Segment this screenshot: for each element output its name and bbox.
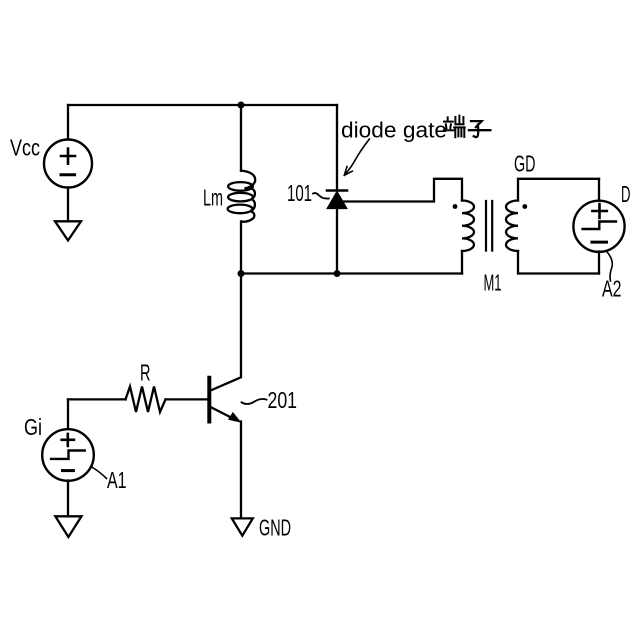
plus sign bbox=[61, 149, 75, 164]
plus sign bbox=[592, 204, 606, 218]
minus sign bbox=[63, 469, 74, 472]
node junction top (Lm tap) bbox=[238, 102, 245, 109]
wire primary bottom lead bbox=[461, 251, 463, 274]
wire resistor to base bbox=[166, 398, 208, 400]
wire Gi top lead bbox=[67, 399, 69, 429]
inductor Lm bbox=[228, 171, 256, 222]
leader squiggle 101 bbox=[313, 193, 329, 199]
svg-text:diode gate: diode gate bbox=[341, 118, 447, 143]
node junction mid-left bbox=[238, 270, 245, 277]
minus sign bbox=[61, 173, 75, 176]
base bar bbox=[207, 378, 211, 422]
wire emitter down bbox=[240, 422, 242, 517]
plus sign bbox=[62, 434, 74, 446]
svg-text:R: R bbox=[140, 360, 151, 386]
collector lead bbox=[211, 274, 242, 391]
voltage source Vcc bbox=[44, 105, 92, 221]
svg-text:M1: M1 bbox=[484, 270, 502, 296]
kanji 端 bbox=[444, 116, 465, 138]
source circle D bbox=[573, 201, 624, 252]
svg-text:GND: GND bbox=[259, 515, 291, 541]
leader squiggle 201 bbox=[242, 399, 267, 404]
wire Gi bottom lead bbox=[67, 481, 69, 517]
emitter arrowhead bbox=[229, 413, 241, 422]
svg-text:Vcc: Vcc bbox=[10, 135, 40, 161]
leader line A1 bbox=[93, 468, 107, 479]
primary winding bbox=[462, 201, 474, 251]
polarity dot primary bbox=[453, 204, 458, 209]
ground GND bbox=[232, 518, 253, 535]
voltage source Gi bbox=[42, 399, 94, 516]
svg-text:D: D bbox=[621, 181, 631, 207]
wire diode top lead bbox=[336, 105, 338, 191]
wire secondary bottom lead bbox=[518, 251, 599, 274]
emitter lead bbox=[211, 407, 236, 420]
kanji 子 bbox=[469, 121, 490, 137]
diode 101 bbox=[327, 191, 347, 274]
wire Gi to resistor bbox=[68, 398, 126, 400]
minus sign bbox=[592, 241, 607, 244]
resistor R bbox=[126, 387, 166, 413]
wire D source top lead bbox=[598, 179, 600, 202]
wire D source bottom lead bbox=[598, 252, 600, 274]
wire Lm bottom lead bbox=[240, 222, 242, 274]
ground below Vcc bbox=[55, 221, 81, 240]
polarity dot secondary bbox=[522, 204, 527, 209]
svg-text:Lm: Lm bbox=[203, 185, 223, 211]
step waveform bbox=[51, 451, 85, 459]
source circle Gi bbox=[42, 429, 94, 481]
wire diode to transformer primary bbox=[340, 179, 462, 202]
voltage source D bbox=[573, 179, 624, 274]
wire Lm top lead bbox=[240, 105, 242, 171]
source circle Vcc bbox=[44, 140, 92, 188]
step waveform bbox=[583, 222, 616, 230]
svg-text:A2: A2 bbox=[602, 276, 622, 302]
transformer M1 bbox=[453, 179, 599, 274]
leader curve A2 bbox=[608, 253, 613, 282]
leader arrow to diode bbox=[345, 139, 369, 175]
ground below Gi bbox=[55, 516, 81, 537]
core lines bbox=[486, 201, 492, 251]
wire Vcc bottom lead bbox=[67, 188, 69, 222]
svg-text:GD: GD bbox=[514, 151, 536, 177]
svg-text:101: 101 bbox=[287, 180, 312, 206]
transistor 201 bbox=[209, 274, 241, 517]
wire Vcc top lead bbox=[67, 105, 69, 140]
node junction mid-diode bbox=[334, 270, 341, 277]
wire top rail bbox=[68, 104, 337, 106]
svg-text:201: 201 bbox=[268, 387, 298, 413]
svg-text:Gi: Gi bbox=[24, 414, 42, 440]
svg-text:A1: A1 bbox=[107, 467, 127, 493]
wire secondary top lead bbox=[518, 179, 599, 201]
wire mid rail bbox=[241, 272, 462, 274]
secondary winding bbox=[506, 201, 518, 251]
